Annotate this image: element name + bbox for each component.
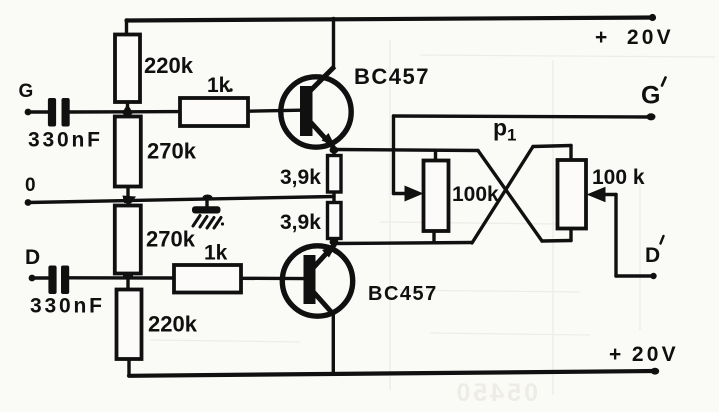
wire R6 to Q2 base bbox=[241, 277, 305, 281]
resistor R4 270k (lower) bbox=[115, 206, 141, 274]
wire node 0 to R4 top bbox=[126, 200, 129, 206]
terminal dot +20V top bbox=[649, 14, 656, 21]
svg-text:100 k: 100 k bbox=[592, 166, 645, 189]
wire G' output line bbox=[394, 116, 651, 117]
wire R3 to Q1 base bbox=[248, 110, 301, 111]
svg-text:+ 20V: + 20V bbox=[609, 343, 679, 366]
label 330nF top bbox=[28, 129, 103, 152]
wire P1a wiper horizontal bbox=[394, 192, 409, 195]
terminal dot D input bbox=[29, 275, 36, 282]
label 1k top bbox=[207, 74, 233, 97]
node junction Q2 emitter / R8 bbox=[330, 239, 339, 246]
wire cross diagonal P1a-bottom to P1b-top bbox=[472, 147, 533, 244]
wire Q2 emitter node to pot bottom line bbox=[335, 243, 472, 244]
wire ground stub bbox=[205, 198, 208, 209]
svg-text:p: p bbox=[493, 115, 507, 141]
wire P1b top stub bbox=[569, 146, 572, 162]
resistor R1 220k (top left) bbox=[115, 35, 140, 103]
resistor R3 1k (top) bbox=[180, 98, 248, 126]
label 330nF bottom bbox=[30, 295, 105, 318]
label 100k left bbox=[452, 183, 499, 206]
wire C2 to R6 (base line D) bbox=[69, 276, 174, 280]
label 1k bottom bbox=[204, 242, 228, 265]
wire R4 bottom to node D bbox=[126, 273, 129, 290]
label 270k upper bbox=[147, 139, 197, 164]
bottom +20V rail wire bbox=[129, 371, 656, 376]
label G' output bbox=[641, 78, 666, 110]
potentiometer P1a body 100k bbox=[424, 161, 449, 232]
wire R8 bottom to Q2 emitter node bbox=[332, 237, 335, 244]
svg-text:220k: 220k bbox=[144, 53, 194, 78]
wire D' output line bbox=[616, 274, 654, 277]
label 0 input bbox=[25, 175, 36, 196]
label 220k top bbox=[144, 53, 194, 78]
label +20V bottom bbox=[609, 343, 679, 366]
wire Q2 collector to bottom rail bbox=[332, 313, 335, 374]
wire P1b wiper horizontal bbox=[602, 193, 616, 196]
wire P1a wiper riser bbox=[392, 116, 395, 194]
wire Q1 emitter node to pot line bbox=[335, 150, 479, 151]
svg-text:100k: 100k bbox=[452, 183, 499, 206]
wire Q1 collector to rail bbox=[332, 19, 335, 69]
capacitor C1 330nF plates bbox=[48, 98, 70, 127]
top +20V rail wire bbox=[127, 18, 654, 21]
resistor R6 1k (bottom) bbox=[174, 265, 241, 293]
P1b wiper arrow bbox=[587, 187, 606, 203]
label D' output bbox=[645, 236, 664, 267]
node junction D-line/R4/R5 bbox=[123, 274, 133, 280]
node junction Q1 emitter / R7 bbox=[330, 147, 339, 154]
wire P1b top horizontal bbox=[533, 146, 571, 147]
svg-text:330nF: 330nF bbox=[28, 129, 103, 152]
P1a wiper arrow bbox=[405, 186, 424, 202]
svg-text:270k: 270k bbox=[146, 227, 196, 252]
wire R1 bottom to node G bbox=[126, 102, 129, 117]
svg-text:BC457: BC457 bbox=[368, 283, 438, 305]
wire 3,9k junction node 0 stub bbox=[332, 150, 335, 157]
wire G input to C1 bbox=[28, 110, 49, 113]
svg-text:220k: 220k bbox=[148, 312, 198, 337]
label 3,9k lower bbox=[280, 211, 321, 234]
faint scan bleed-through artifacts bbox=[150, 40, 715, 395]
resistor R5 220k (bottom left) bbox=[117, 290, 142, 360]
wire C1 to R3 (base line G) bbox=[69, 110, 180, 114]
transistor Q2 BC457 bbox=[282, 244, 352, 316]
transistor Q1 BC457 bbox=[281, 67, 351, 149]
wire P1b bottom stub bbox=[569, 228, 572, 241]
wire cross diagonal P1a-top to P1b-bottom bbox=[478, 151, 542, 242]
label D input bbox=[25, 246, 40, 269]
svg-text:D: D bbox=[645, 244, 660, 267]
svg-text:D: D bbox=[25, 246, 40, 269]
ground symbol bbox=[192, 206, 224, 228]
svg-text:3,9k: 3,9k bbox=[280, 211, 321, 234]
label 100k right bbox=[592, 166, 645, 189]
potentiometer P1b body 100k bbox=[558, 160, 587, 229]
label G input bbox=[19, 81, 34, 102]
wire rail to R1 top bbox=[125, 20, 128, 36]
terminal dot 0 input bbox=[25, 199, 32, 206]
svg-text:1k: 1k bbox=[207, 74, 231, 97]
wire P1a top stub bbox=[434, 151, 437, 162]
node junction at G/R1/R2 bbox=[122, 104, 133, 118]
svg-text:BC457: BC457 bbox=[354, 64, 430, 89]
resistor R2 270k (upper) bbox=[115, 117, 141, 187]
wire R5 bottom to bottom rail bbox=[127, 359, 130, 376]
terminal dot D' output bbox=[650, 273, 656, 279]
svg-text:G: G bbox=[19, 81, 34, 102]
svg-text:1k: 1k bbox=[204, 242, 228, 265]
wire 0 input line bbox=[28, 197, 334, 203]
wire P1b wiper riser bbox=[614, 195, 617, 277]
svg-text:+ 20V: + 20V bbox=[595, 26, 674, 49]
wire between 3,9k resistors bbox=[332, 191, 335, 203]
terminal dot +20V bottom bbox=[651, 368, 659, 375]
svg-text:270k: 270k bbox=[147, 139, 197, 164]
label +20V top bbox=[595, 26, 674, 49]
label BC457 top bbox=[354, 64, 430, 89]
label BC457 bottom bbox=[368, 283, 438, 305]
node junction ground tap bbox=[203, 195, 213, 201]
svg-text:G: G bbox=[641, 82, 660, 110]
terminal dot G' output bbox=[647, 113, 656, 120]
label p1 bbox=[493, 115, 516, 145]
wire R2 bottom to node 0 bbox=[126, 186, 129, 200]
label 270k lower bbox=[146, 227, 196, 252]
label 3,9k upper bbox=[280, 166, 321, 189]
svg-text:1: 1 bbox=[507, 126, 516, 145]
resistor R8 3,9k (lower) bbox=[328, 203, 342, 239]
svg-text:0: 0 bbox=[25, 175, 36, 196]
wire P1a bottom stub bbox=[432, 231, 435, 243]
resistor R7 3,9k (upper) bbox=[328, 156, 342, 193]
wire D input to C2 bbox=[32, 276, 50, 279]
svg-text:3,9k: 3,9k bbox=[280, 166, 321, 189]
label 220k bottom bbox=[148, 312, 198, 337]
capacitor C2 330nF plates bbox=[48, 266, 69, 295]
svg-text:05450: 05450 bbox=[453, 379, 538, 407]
node junction 0-line/R2/R4 bbox=[123, 196, 137, 204]
svg-text:330nF: 330nF bbox=[30, 295, 105, 318]
terminal dot G input bbox=[25, 109, 32, 116]
wire P1b bottom horizontal bbox=[542, 239, 571, 243]
